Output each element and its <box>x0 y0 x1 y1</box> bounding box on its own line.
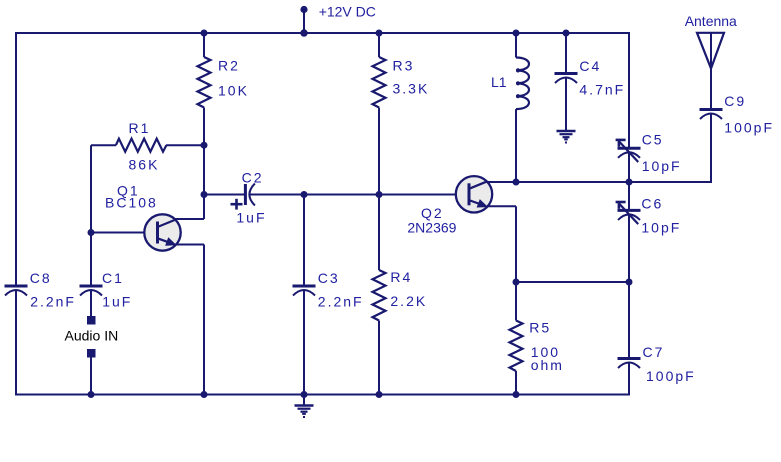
svg-text:L1: L1 <box>491 74 507 90</box>
svg-text:C1: C1 <box>102 270 124 286</box>
svg-text:1uF: 1uF <box>236 210 266 226</box>
svg-text:+12V DC: +12V DC <box>319 4 376 20</box>
svg-text:R4: R4 <box>390 269 412 285</box>
svg-text:10K: 10K <box>218 82 249 98</box>
svg-text:R2: R2 <box>218 58 240 74</box>
svg-text:4.7nF: 4.7nF <box>579 82 625 98</box>
svg-text:3.3K: 3.3K <box>393 80 430 96</box>
svg-text:C3: C3 <box>318 270 340 286</box>
svg-text:BC108: BC108 <box>105 195 158 211</box>
svg-text:C6: C6 <box>641 195 663 211</box>
svg-text:2.2nF: 2.2nF <box>318 294 364 310</box>
svg-text:100pF: 100pF <box>724 119 774 135</box>
svg-text:C9: C9 <box>724 93 746 109</box>
svg-text:Antenna: Antenna <box>685 13 737 29</box>
svg-text:2N2369: 2N2369 <box>407 219 456 235</box>
svg-text:R1: R1 <box>129 120 151 136</box>
svg-text:86K: 86K <box>129 157 160 173</box>
svg-text:R3: R3 <box>393 58 415 74</box>
svg-text:Audio IN: Audio IN <box>65 328 119 344</box>
svg-text:R5: R5 <box>529 320 551 336</box>
svg-text:10pF: 10pF <box>641 220 681 236</box>
svg-text:2.2K: 2.2K <box>390 293 427 309</box>
svg-text:C4: C4 <box>579 58 601 74</box>
svg-text:C7: C7 <box>643 344 665 360</box>
svg-text:100pF: 100pF <box>646 368 696 384</box>
svg-text:2.2nF: 2.2nF <box>30 293 76 309</box>
svg-text:ohm: ohm <box>531 357 564 373</box>
svg-text:C5: C5 <box>642 131 664 147</box>
svg-text:C8: C8 <box>30 270 52 286</box>
svg-text:10pF: 10pF <box>642 158 682 174</box>
svg-text:1uF: 1uF <box>102 293 132 309</box>
svg-text:C2: C2 <box>242 170 264 186</box>
